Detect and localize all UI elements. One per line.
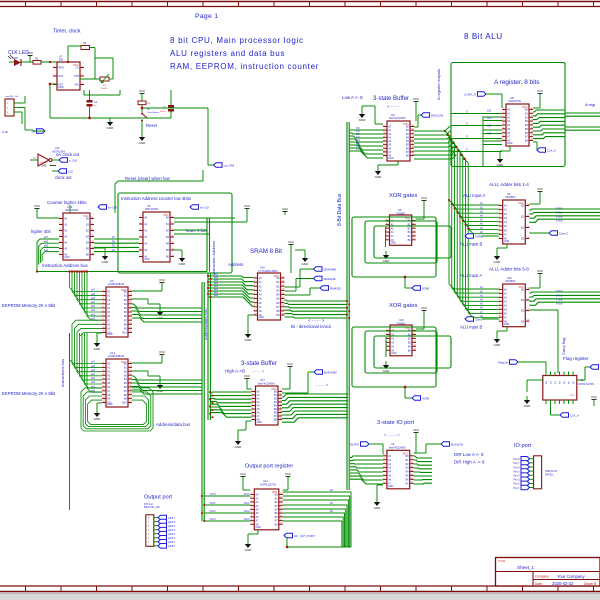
svg-text:Instruction Address counter lo: Instruction Address counter low 4bits bbox=[121, 196, 191, 201]
svg-text:VCC: VCC bbox=[287, 362, 294, 366]
svg-text:Push-Button: Push-Button bbox=[147, 111, 160, 114]
svg-text:A register outputs: A register outputs bbox=[436, 69, 441, 100]
svg-text:LED6: LED6 bbox=[12, 57, 19, 60]
svg-text:8sn74LS245N: 8sn74LS245N bbox=[389, 446, 406, 450]
svg-text:GND: GND bbox=[235, 445, 243, 449]
svg-text:wA/5.5: wA/5.5 bbox=[168, 525, 176, 528]
svg-text:conn254_1x3: conn254_1x3 bbox=[5, 96, 19, 98]
svg-text:DM74163N: DM74163N bbox=[65, 208, 78, 212]
svg-text:VCC: VCC bbox=[413, 97, 420, 101]
svg-text:ALU input A: ALU input A bbox=[460, 273, 482, 278]
svg-text:Instructions bus: Instructions bus bbox=[60, 359, 65, 387]
svg-text:DM74163N: DM74163N bbox=[145, 207, 158, 211]
svg-text:aA1: aA1 bbox=[91, 313, 96, 316]
svg-text:BUFIO: BUFIO bbox=[350, 442, 359, 446]
svg-text:DC: DC bbox=[330, 503, 334, 505]
svg-text:out_AA8: out_AA8 bbox=[224, 163, 235, 167]
svg-text:VCC: VCC bbox=[83, 214, 89, 218]
svg-text:CLK_A: CLK_A bbox=[547, 148, 556, 152]
svg-text:Company:: Company: bbox=[535, 575, 550, 579]
svg-text:Instruction Address: Instruction Address bbox=[211, 241, 216, 275]
svg-text:Flag register: Flag register bbox=[563, 356, 589, 361]
svg-text:GND: GND bbox=[107, 333, 113, 336]
svg-text:GND: GND bbox=[257, 421, 263, 424]
svg-text:3-state Buffer: 3-state Buffer bbox=[241, 361, 277, 367]
svg-text:aA1: aA1 bbox=[214, 291, 219, 294]
svg-text:GND: GND bbox=[504, 240, 510, 243]
svg-text:Port 5: Port 5 bbox=[513, 470, 520, 473]
svg-text:XOR gates: XOR gates bbox=[389, 303, 417, 309]
svg-text:GND: GND bbox=[107, 126, 115, 130]
svg-text:wA/5.0: wA/5.0 bbox=[168, 545, 176, 548]
svg-text:< - - - - >: < - - - - > bbox=[308, 318, 325, 323]
svg-text:3-Sum: 3-Sum bbox=[556, 216, 563, 218]
svg-text:BUF100M: BUF100M bbox=[324, 370, 337, 374]
svg-text:2020-02-22: 2020-02-22 bbox=[552, 581, 574, 586]
svg-text:aA6: aA6 bbox=[91, 365, 96, 368]
svg-text:GND: GND bbox=[524, 404, 532, 408]
svg-text:GND: GND bbox=[256, 526, 262, 529]
svg-text:aA5: aA5 bbox=[214, 279, 219, 282]
svg-text:6-Sum: 6-Sum bbox=[556, 295, 563, 297]
svg-text:VCC: VCC bbox=[159, 278, 166, 282]
svg-text:ALU input B: ALU input B bbox=[460, 325, 483, 330]
svg-text:GND: GND bbox=[374, 506, 382, 510]
svg-text:1D0: 1D0 bbox=[487, 111, 492, 113]
svg-text:GND: GND bbox=[139, 141, 147, 145]
svg-text:Port 2: Port 2 bbox=[513, 483, 520, 486]
svg-text:VCC: VCC bbox=[285, 472, 292, 476]
svg-text:lower 4 bits: lower 4 bits bbox=[186, 228, 207, 233]
svg-text:Port0: Port0 bbox=[244, 493, 250, 496]
svg-text:Address/data bus: Address/data bus bbox=[156, 422, 191, 427]
svg-text:Drawn B: Drawn B bbox=[584, 582, 596, 586]
svg-text:1D3: 1D3 bbox=[487, 133, 492, 135]
svg-text:GND: GND bbox=[391, 352, 397, 355]
svg-text:wA/5.7: wA/5.7 bbox=[168, 517, 176, 520]
svg-text:VCC: VCC bbox=[522, 105, 528, 109]
svg-text:aA6: aA6 bbox=[91, 293, 96, 296]
svg-text:GND: GND bbox=[245, 548, 253, 552]
svg-text:DC: DC bbox=[330, 490, 334, 492]
svg-text:clock out: clock out bbox=[55, 175, 72, 180]
svg-text:EEPROM Memory 2K x 8bit: EEPROM Memory 2K x 8bit bbox=[2, 303, 56, 308]
svg-text:U13: U13 bbox=[263, 479, 268, 483]
svg-text:VCC: VCC bbox=[139, 89, 146, 93]
svg-text:VCC: VCC bbox=[121, 360, 127, 364]
svg-text:GND: GND bbox=[58, 86, 64, 89]
svg-text:ALU input A: ALU input A bbox=[463, 193, 485, 198]
svg-text:Carry 2: Carry 2 bbox=[559, 231, 569, 235]
svg-text:7-Sum: 7-Sum bbox=[556, 299, 563, 301]
svg-text:THR: THR bbox=[74, 75, 79, 78]
svg-text:Port2: Port2 bbox=[210, 510, 216, 513]
svg-text:Output port: Output port bbox=[144, 495, 172, 501]
svg-text:aA4: aA4 bbox=[44, 249, 49, 252]
svg-text:GND: GND bbox=[144, 258, 150, 261]
svg-text:IO port: IO port bbox=[514, 443, 532, 449]
svg-text:GND: GND bbox=[391, 242, 397, 245]
svg-text:U5: U5 bbox=[398, 208, 402, 212]
svg-text:VCC: VCC bbox=[403, 122, 409, 126]
svg-text:GND: GND bbox=[259, 316, 265, 319]
svg-text:BUSLOW: BUSLOW bbox=[451, 442, 463, 446]
svg-text:4-Sum: 4-Sum bbox=[556, 221, 563, 223]
svg-text:DC: DC bbox=[330, 511, 334, 513]
svg-text:Carry flag: Carry flag bbox=[561, 338, 566, 355]
svg-text:aA3: aA3 bbox=[91, 377, 96, 380]
svg-text:OUT: OUT bbox=[58, 75, 64, 78]
svg-text:Reset: Reset bbox=[146, 123, 158, 128]
svg-text:XORB: XORB bbox=[422, 397, 429, 400]
svg-text:GND: GND bbox=[494, 343, 502, 347]
svg-text:GND: GND bbox=[388, 485, 394, 488]
svg-text:1D1: 1D1 bbox=[487, 118, 492, 120]
svg-text:VCC: VCC bbox=[288, 240, 295, 244]
svg-text:aA7: aA7 bbox=[214, 273, 219, 276]
svg-text:aA7: aA7 bbox=[91, 289, 96, 292]
svg-text:inv CLK: inv CLK bbox=[200, 205, 209, 209]
svg-text:VCC: VCC bbox=[421, 306, 428, 310]
svg-text:VCC: VCC bbox=[570, 395, 575, 397]
svg-text:aA5: aA5 bbox=[91, 297, 96, 300]
svg-text:Timer, clock: Timer, clock bbox=[53, 29, 81, 35]
svg-text:aA4: aA4 bbox=[91, 301, 96, 304]
svg-text:inv CLK: inv CLK bbox=[108, 205, 117, 209]
svg-text:DIR Low A <- 8: DIR Low A <- 8 bbox=[454, 452, 484, 457]
svg-text:1M: 1M bbox=[147, 103, 150, 105]
svg-text:aA6: aA6 bbox=[214, 276, 219, 279]
svg-text:TITLE:: TITLE: bbox=[498, 559, 506, 563]
svg-text:GND: GND bbox=[41, 165, 47, 168]
svg-text:aA5: aA5 bbox=[91, 369, 96, 372]
svg-text:GND: GND bbox=[359, 118, 367, 122]
svg-text:1000 k: 1000 k bbox=[101, 88, 108, 90]
svg-text:8 bit CPU, Main processor logi: 8 bit CPU, Main processor logic bbox=[170, 36, 304, 45]
svg-text:GND: GND bbox=[302, 262, 310, 266]
svg-text:1D2: 1D2 bbox=[487, 126, 492, 128]
svg-text:GND: GND bbox=[64, 256, 70, 259]
svg-text:GND: GND bbox=[375, 175, 383, 179]
svg-text:VCC: VCC bbox=[240, 472, 247, 476]
svg-text:aA4: aA4 bbox=[214, 282, 219, 285]
svg-text:VCC: VCC bbox=[537, 89, 544, 93]
svg-text:Port3: Port3 bbox=[210, 518, 216, 521]
svg-text:U17: U17 bbox=[260, 378, 265, 382]
svg-text:GND: GND bbox=[102, 260, 110, 264]
svg-text:VCC: VCC bbox=[537, 269, 544, 273]
svg-text:5-Sum: 5-Sum bbox=[556, 291, 563, 293]
svg-text:U10: U10 bbox=[260, 266, 265, 270]
svg-text:Page 1: Page 1 bbox=[195, 13, 218, 20]
svg-text:DIS: DIS bbox=[75, 84, 79, 87]
svg-text:8-Bit Data Bus: 8-Bit Data Bus bbox=[337, 193, 343, 226]
svg-text:inv clock out: inv clock out bbox=[56, 152, 80, 157]
svg-text:VCC: VCC bbox=[591, 395, 598, 399]
svg-text:in clk: in clk bbox=[2, 130, 9, 134]
svg-text:SRAMWE: SRAMWE bbox=[324, 267, 337, 271]
svg-text:Port 6: Port 6 bbox=[513, 466, 520, 469]
svg-text:XORB: XORB bbox=[475, 234, 483, 238]
svg-text:ALU registers and data bus: ALU registers and data bus bbox=[170, 49, 285, 58]
svg-text:wA/5.1: wA/5.1 bbox=[168, 541, 176, 544]
svg-text:Port 8: Port 8 bbox=[513, 458, 520, 461]
svg-text:SN74LS279N: SN74LS279N bbox=[578, 382, 594, 386]
svg-text:B10: B10 bbox=[123, 402, 128, 405]
svg-text:GND: GND bbox=[107, 403, 113, 406]
svg-text:aA2: aA2 bbox=[91, 381, 96, 384]
svg-text:EEPROM Memory 2K x 8bit: EEPROM Memory 2K x 8bit bbox=[2, 391, 56, 396]
svg-text:aA2: aA2 bbox=[91, 309, 96, 312]
svg-text:DRT5LL: DRT5LL bbox=[545, 474, 555, 477]
svg-text:Instruction Address bus: Instruction Address bus bbox=[42, 263, 88, 268]
svg-text:VCC: VCC bbox=[518, 201, 524, 205]
svg-text:SRAMOE: SRAMOE bbox=[324, 277, 336, 281]
svg-text:Reset (clear) when low: Reset (clear) when low bbox=[125, 176, 170, 181]
svg-text:aA4: aA4 bbox=[91, 373, 96, 376]
svg-text:- - - - >: - - - - > bbox=[252, 369, 265, 374]
svg-text:aA2: aA2 bbox=[214, 288, 219, 291]
svg-text:DIR High A -> 8: DIR High A -> 8 bbox=[454, 460, 485, 465]
svg-text:U2: U2 bbox=[391, 442, 395, 446]
svg-text:SRAM 8 Bit: SRAM 8 Bit bbox=[250, 248, 282, 255]
svg-text:higher 4bit: higher 4bit bbox=[31, 229, 51, 234]
svg-text:ALU input B: ALU input B bbox=[460, 242, 483, 247]
svg-text:Sheet_1: Sheet_1 bbox=[517, 565, 535, 570]
svg-text:XORB: XORB bbox=[422, 287, 429, 290]
svg-text:VCC: VCC bbox=[159, 350, 166, 354]
svg-text:wA/5.2: wA/5.2 bbox=[168, 537, 176, 540]
svg-text:BUSLOW: BUSLOW bbox=[431, 113, 443, 117]
svg-text:AT28C64B-20: AT28C64B-20 bbox=[108, 282, 125, 286]
svg-text:VCC: VCC bbox=[34, 204, 41, 208]
svg-text:CLK: CLK bbox=[68, 169, 73, 173]
svg-text:CLR/A_R: CLR/A_R bbox=[464, 92, 476, 96]
svg-text:74F283N: 74F283N bbox=[505, 195, 516, 199]
svg-text:Port0: Port0 bbox=[210, 493, 216, 496]
svg-text:Port 3: Port 3 bbox=[513, 479, 520, 482]
svg-text:VCC: VCC bbox=[271, 387, 277, 391]
svg-text:Your Company: Your Company bbox=[557, 574, 585, 579]
svg-text:FlagCar: FlagCar bbox=[498, 360, 508, 364]
svg-text:VCC: VCC bbox=[537, 187, 544, 191]
svg-text:3-K_OUT_PORT: 3-K_OUT_PORT bbox=[294, 534, 315, 538]
svg-text:Date:: Date: bbox=[535, 582, 543, 586]
svg-text:< - - - - >: < - - - - > bbox=[384, 432, 400, 437]
svg-text:A register, 8 bits: A register, 8 bits bbox=[494, 79, 539, 86]
svg-text:Port 4: Port 4 bbox=[513, 475, 520, 478]
svg-text:VCC: VCC bbox=[274, 274, 280, 278]
svg-text:VCC: VCC bbox=[272, 490, 278, 494]
svg-text:B10: B10 bbox=[123, 332, 128, 335]
svg-text:88LP-254_1x8: 88LP-254_1x8 bbox=[144, 506, 160, 509]
svg-text:High A->B: High A->B bbox=[225, 369, 245, 374]
svg-text:Port3: Port3 bbox=[244, 518, 250, 521]
svg-text:GND: GND bbox=[388, 157, 394, 160]
svg-text:8sn74LS245N: 8sn74LS245N bbox=[389, 116, 406, 120]
svg-text:SN74LS273N: SN74LS273N bbox=[260, 483, 276, 487]
svg-text:a. CLK: a. CLK bbox=[69, 158, 77, 162]
svg-text:Port1: Port1 bbox=[244, 502, 250, 505]
svg-text:VCC: VCC bbox=[244, 204, 251, 208]
svg-text:RAM, EEPROM, instruction count: RAM, EEPROM, instruction counter bbox=[170, 62, 319, 71]
svg-text:8sn74LS245N: 8sn74LS245N bbox=[258, 382, 275, 386]
svg-text:GND: GND bbox=[179, 262, 187, 266]
svg-text:A regi: A regi bbox=[585, 102, 595, 107]
svg-text:GND: GND bbox=[94, 347, 102, 351]
svg-text:VCC: VCC bbox=[163, 213, 169, 217]
svg-text:GND: GND bbox=[383, 369, 391, 373]
svg-text:Port 7: Port 7 bbox=[513, 462, 520, 465]
svg-text:0.01u: 0.01u bbox=[160, 111, 166, 113]
svg-text:Port1: Port1 bbox=[210, 502, 216, 505]
svg-text:U15: U15 bbox=[399, 318, 404, 322]
svg-text:XOR gates: XOR gates bbox=[389, 193, 417, 199]
svg-text:wA/5.4: wA/5.4 bbox=[168, 529, 176, 532]
svg-text:GND: GND bbox=[504, 323, 510, 326]
svg-text:wA/5.3: wA/5.3 bbox=[168, 533, 176, 536]
svg-text:GND: GND bbox=[383, 259, 391, 263]
svg-text:VCC: VCC bbox=[244, 374, 251, 378]
svg-text:GND: GND bbox=[494, 260, 502, 264]
svg-text:VCC: VCC bbox=[413, 428, 420, 432]
svg-text:555: 555 bbox=[59, 59, 64, 62]
svg-text:Low A <- 8: Low A <- 8 bbox=[342, 95, 363, 100]
svg-text:Bi - directional in/out: Bi - directional in/out bbox=[291, 324, 332, 329]
svg-text:RAMSEL: RAMSEL bbox=[330, 286, 342, 290]
svg-text:Address: Address bbox=[228, 262, 243, 267]
svg-text:74F283N: 74F283N bbox=[505, 279, 516, 283]
svg-text:Port2: Port2 bbox=[244, 510, 250, 513]
svg-text:8 Bit ALU: 8 Bit ALU bbox=[464, 32, 503, 41]
svg-text:GND: GND bbox=[507, 142, 513, 145]
svg-text:GND: GND bbox=[94, 417, 102, 421]
svg-text:1-Sum: 1-Sum bbox=[556, 208, 563, 210]
svg-text:VCC: VCC bbox=[403, 452, 409, 456]
svg-text:aA5: aA5 bbox=[44, 245, 49, 248]
svg-text:AT28C64B-20: AT28C64B-20 bbox=[108, 354, 125, 358]
svg-text:CLK LED: CLK LED bbox=[8, 50, 29, 56]
svg-text:U11: U11 bbox=[55, 146, 60, 150]
svg-text:Port 1: Port 1 bbox=[513, 487, 520, 490]
svg-text:VCC: VCC bbox=[282, 207, 289, 211]
svg-text:aA0: aA0 bbox=[214, 294, 219, 297]
svg-text:74HC273N: 74HC273N bbox=[508, 99, 521, 103]
svg-text:TRIG: TRIG bbox=[58, 67, 64, 70]
svg-text:aA7: aA7 bbox=[91, 361, 96, 364]
svg-text:ALU, Adder bits 1-4: ALU, Adder bits 1-4 bbox=[489, 182, 529, 187]
svg-text:3-state IO port: 3-state IO port bbox=[377, 420, 414, 426]
svg-text:VCC: VCC bbox=[518, 285, 524, 289]
svg-text:aA3: aA3 bbox=[91, 305, 96, 308]
svg-text:CLK_A: CLK_A bbox=[570, 413, 579, 417]
svg-text:aA6: aA6 bbox=[44, 240, 49, 243]
svg-text:VCC: VCC bbox=[121, 288, 127, 292]
svg-text:3-state Buffer: 3-state Buffer bbox=[373, 96, 409, 102]
svg-text:Output port register: Output port register bbox=[245, 464, 293, 470]
svg-text:GND: GND bbox=[245, 338, 253, 342]
svg-text:aA3: aA3 bbox=[214, 285, 219, 288]
svg-text:VCC: VCC bbox=[73, 63, 79, 67]
svg-text:8-Sum: 8-Sum bbox=[556, 304, 563, 306]
svg-text:aA7: aA7 bbox=[44, 236, 49, 239]
svg-text:ALU, Adder bits 5-8: ALU, Adder bits 5-8 bbox=[489, 267, 529, 272]
svg-text:wA/5.6: wA/5.6 bbox=[168, 521, 176, 524]
svg-text:2-Sum: 2-Sum bbox=[556, 212, 563, 214]
svg-text:- - - - >: - - - - > bbox=[316, 382, 329, 387]
svg-text:< - - - -: < - - - - bbox=[387, 104, 400, 109]
svg-text:CY7C2846-45PC: CY7C2846-45PC bbox=[258, 269, 278, 273]
svg-text:VCC: VCC bbox=[421, 196, 428, 200]
